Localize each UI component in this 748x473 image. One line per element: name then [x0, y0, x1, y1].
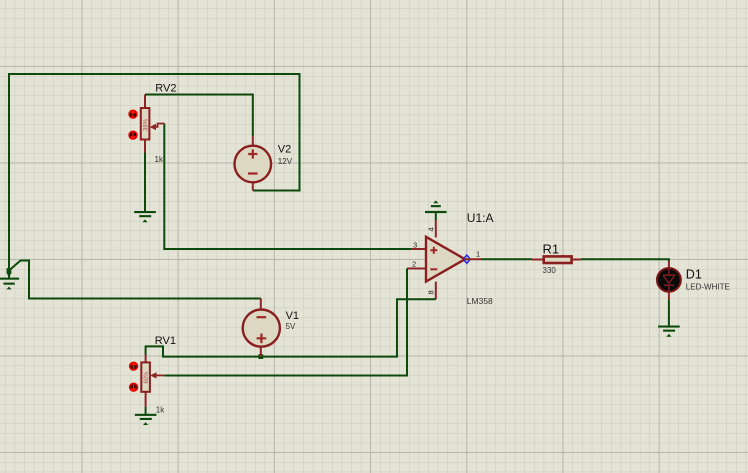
svg-text:2: 2: [412, 260, 416, 269]
svg-text:8: 8: [427, 290, 436, 294]
node: ground junction: [7, 268, 12, 273]
wire: RV2 bottom to ground: [144, 153, 146, 212]
wire: RV2 wiper to U1 pin3: [164, 248, 411, 250]
wire: ground node to V1 negative: [9, 261, 261, 299]
resistor R1: [532, 256, 581, 263]
battery V1: [243, 299, 280, 357]
potentiometer RV1: [129, 355, 164, 407]
wire: RV1 bottom to ground: [145, 407, 147, 414]
pin 2: [407, 268, 426, 270]
wire: U1 pin1 output to R1: [481, 258, 532, 260]
svg-text:3: 3: [413, 241, 417, 250]
wire: D1 to ground: [668, 300, 670, 326]
ground (below D1): [658, 326, 680, 337]
wire: U1 pin8 to V1 positive rail and RV1 top: [146, 299, 436, 356]
potentiometer RV2: [128, 95, 164, 153]
wire: U1 pin2 to RV1 wiper: [164, 269, 407, 376]
svg-text:V2: V2: [278, 143, 291, 155]
pin 3: [411, 248, 426, 250]
pin 1 output: [465, 258, 481, 260]
svg-text:R1: R1: [543, 241, 560, 256]
led D1: [657, 261, 681, 300]
output marker: [464, 255, 470, 263]
svg-text:D1: D1: [686, 267, 702, 281]
wire: left vertical down to ground node: [8, 73, 10, 271]
svg-text:1k: 1k: [155, 155, 164, 164]
ground (below RV1): [135, 414, 157, 425]
svg-text:38%: 38%: [144, 118, 150, 131]
ground (above U1, inverted): [425, 200, 447, 220]
svg-text:5V: 5V: [286, 322, 296, 331]
pin 8: [435, 282, 437, 300]
ground (left, at ground node): [0, 271, 19, 289]
svg-text:4: 4: [427, 227, 436, 231]
svg-text:RV2: RV2: [155, 83, 176, 95]
svg-text:12V: 12V: [278, 157, 293, 166]
svg-text:RV1: RV1: [155, 335, 176, 347]
wire: V2 negative to ground-node top loop: [9, 74, 300, 191]
svg-text:V1: V1: [286, 310, 299, 322]
svg-text:1: 1: [476, 250, 480, 259]
wire: RV2 wiper vertical: [163, 124, 165, 251]
ground (below RV2): [134, 211, 156, 222]
op-amp U1:A: [407, 220, 481, 300]
svg-text:1k: 1k: [156, 406, 165, 415]
svg-text:60%: 60%: [144, 371, 150, 384]
pin 4: [435, 220, 437, 238]
wire: RV2 top to V2 positive: [145, 95, 253, 137]
svg-text:LED-WHITE: LED-WHITE: [686, 283, 730, 292]
svg-text:LM358: LM358: [467, 296, 493, 306]
wire: R1 to D1: [581, 259, 669, 261]
node: V1 positive junction: [258, 354, 263, 359]
svg-text:U1:A: U1:A: [467, 211, 494, 225]
svg-text:330: 330: [543, 266, 557, 275]
battery V2: [235, 136, 272, 191]
